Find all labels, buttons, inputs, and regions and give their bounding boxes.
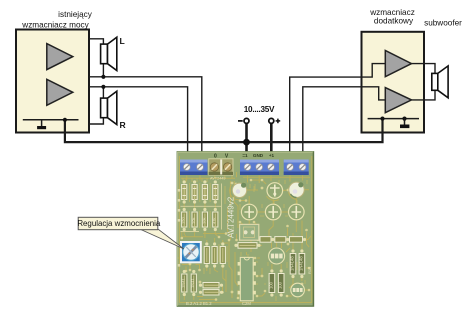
resistor R row B2	[191, 208, 197, 231]
wire trace bottom left zigzag	[182, 265, 216, 301]
svg-text:istniejący: istniejący	[58, 10, 93, 19]
ground bus left box	[23, 119, 79, 121]
wire ground bus long horizontal	[65, 119, 383, 143]
wire power minus down	[245, 123, 248, 163]
wire trace caps mid row links	[249, 196, 296, 212]
svg-text:R: R	[120, 120, 127, 130]
label Regulacja wzmocnienia	[78, 217, 158, 229]
svg-text:1N4148: 1N4148	[298, 256, 303, 271]
op-amp triangle left lower	[47, 79, 73, 105]
resistor R row B1	[181, 208, 187, 231]
op-amp triangle right lower	[385, 88, 411, 113]
capacitor C white top-right	[289, 182, 304, 197]
wire trace block1 screw stubs	[187, 176, 225, 181]
resistor mid M3	[220, 242, 225, 267]
wire trace fine mesh top	[183, 178, 307, 206]
node junction left ground	[63, 118, 67, 122]
capacitor C white top-left	[232, 183, 246, 198]
junction dot minus/ground	[243, 139, 250, 146]
wire trace caps top row links	[247, 180, 310, 191]
capacitor C electrolytic mid-2	[265, 204, 281, 220]
resistor left of IC	[234, 243, 260, 249]
capacitor C electrolytic mid-3	[289, 204, 305, 220]
resistor R row B4	[212, 208, 218, 231]
svg-text:L: L	[120, 36, 125, 46]
resistor R row A1	[182, 180, 187, 203]
pad vias left edge	[178, 189, 181, 267]
PCB board	[177, 152, 314, 307]
wire trace center verticals to IC	[229, 232, 251, 298]
wire trace cap ring arcs	[230, 185, 297, 201]
capacitor C electrolytic mid-1	[241, 204, 257, 220]
resistor right top RT1	[256, 237, 274, 243]
resistor bottom H1	[199, 283, 223, 288]
terminal block 2 (tan jumper block)	[209, 159, 233, 175]
resistor R row A2	[192, 180, 197, 203]
wire speaker L bottom stub	[102, 64, 104, 77]
trimmer potentiometer PR1	[181, 242, 201, 262]
wire trace row A pads up links	[184, 181, 215, 183]
ground symbol right box	[404, 119, 406, 125]
wire trace block3/4 screw stubs	[248, 176, 303, 184]
wire trace transistor T1 leads	[272, 243, 282, 272]
wire trace bottom center	[238, 258, 265, 301]
capacitor C electrolytic top-mid	[267, 183, 283, 199]
svg-text:10k: 10k	[191, 218, 196, 224]
wire trace caps mid row bottoms	[245, 220, 302, 251]
svg-text:1N41: 1N41	[181, 278, 186, 288]
node R+ junction	[101, 85, 105, 89]
existing power amplifier box	[16, 30, 89, 133]
node right ground riser junction	[380, 117, 384, 121]
terminal plus	[269, 118, 274, 123]
ground bus right box	[368, 118, 419, 120]
resistor bottom H2	[199, 290, 223, 295]
diode right D2	[298, 249, 304, 278]
silk separator lines left block	[181, 184, 222, 232]
terminal block 1 (blue, from existing amp)	[180, 160, 208, 176]
wire power plus down	[270, 123, 273, 163]
wire PCB block4 pin2 to right amp lower input	[303, 87, 386, 162]
wire trace mid column serpentine	[228, 181, 239, 240]
wire speaker R top stub	[102, 87, 104, 98]
wire R+ from amp to PCB block1 pin1	[89, 87, 188, 162]
wire trace right column mid	[288, 228, 310, 251]
wire L+ amp to speaker L	[89, 39, 103, 44]
wire trace misc horizontals	[186, 179, 258, 253]
wire trace above trimmer	[181, 234, 226, 245]
wire trace left edge vertical	[177, 156, 182, 303]
node right ground symbol junction	[402, 117, 406, 121]
op-amp triangle left upper	[47, 44, 73, 70]
speaker L	[101, 44, 108, 64]
svg-text:AVT2449: AVT2449	[210, 177, 226, 181]
node L- junction	[101, 75, 105, 79]
wire L- from amp to PCB block1 pin2	[89, 77, 202, 162]
diode D row C2	[190, 270, 196, 296]
wire right amp lower output to subwoofer	[412, 90, 436, 100]
svg-text:1N4148: 1N4148	[289, 256, 294, 271]
resistor mid M2	[212, 242, 217, 267]
wire trace fine mesh center	[225, 182, 288, 216]
transistor T2	[291, 283, 305, 297]
wire trace right bottom links	[286, 248, 309, 296]
terminal minus	[238, 120, 243, 122]
diode right D1	[289, 249, 295, 278]
svg-text:10k: 10k	[201, 218, 206, 224]
capacitor C13 film box	[230, 224, 259, 240]
svg-text:GND: GND	[253, 153, 264, 158]
svg-text:=1: =1	[242, 153, 248, 158]
wire trace right top resistor links	[254, 236, 311, 245]
diode D row C1	[181, 270, 187, 296]
wire trace row A to row B links	[184, 202, 215, 210]
wire trace under blocks horizontal	[181, 172, 310, 178]
svg-text:1N41: 1N41	[190, 278, 195, 288]
resistor mid M1	[204, 242, 209, 267]
svg-text:B.2 A1.2 B1.2: B.2 A1.2 B1.2	[186, 301, 212, 306]
svg-text:100: 100	[268, 281, 273, 289]
svg-text:150: 150	[181, 217, 186, 224]
wire right amp upper output to subwoofer	[412, 64, 436, 74]
additional amplifier box	[362, 32, 425, 133]
svg-text:Regulacja wzmocnienia: Regulacja wzmocnienia	[77, 219, 161, 228]
wire trace fine mesh left	[190, 183, 211, 228]
wire trace fine mesh bottom	[204, 244, 305, 301]
terminal block 3 (blue, power GND)	[240, 160, 279, 176]
pad dots scatter	[181, 179, 311, 301]
svg-text:subwoofer: subwoofer	[424, 19, 462, 28]
svg-text:0: 0	[214, 154, 217, 160]
resistor right top RT3	[290, 237, 307, 243]
svg-text:47k: 47k	[212, 218, 217, 224]
wire trace bottom edge horizontal	[179, 156, 311, 303]
op-amp triangle right upper	[385, 51, 411, 77]
pointer wedge to trimmer	[141, 229, 184, 249]
resistor R row A3	[202, 180, 207, 203]
wire trace row B bottoms down	[184, 230, 219, 239]
svg-text:100: 100	[278, 281, 283, 289]
ground symbol left box	[41, 120, 43, 126]
svg-text:wzmacniacz mocy: wzmacniacz mocy	[21, 21, 89, 30]
board edge highlight	[178, 152, 314, 306]
wire R- speaker to amp	[89, 118, 103, 124]
speaker subwoofer	[432, 73, 438, 90]
resistor right top RT2	[275, 237, 289, 243]
resistor bottom mid V2	[278, 269, 284, 296]
resistor R row B3	[201, 208, 207, 231]
wire PCB block4 pin1 to right amp upper input	[290, 64, 386, 162]
resistor R row A4	[213, 180, 218, 203]
svg-text:C2M: C2M	[242, 301, 251, 306]
wire trace mid bottom links	[207, 266, 226, 292]
transistor T1	[269, 248, 285, 264]
svg-text:AVT2449v2: AVT2449v2	[227, 196, 236, 238]
resistor bottom mid V1	[268, 269, 274, 296]
IC U1 socket	[238, 257, 256, 300]
svg-text:+1: +1	[269, 153, 275, 158]
terminal block 4 (blue, to subwoofer amp)	[284, 160, 309, 176]
svg-text:R15: R15	[307, 266, 312, 274]
speaker R	[101, 98, 108, 118]
svg-text:dodatkowy: dodatkowy	[374, 17, 414, 26]
svg-text:10....35V: 10....35V	[244, 105, 275, 114]
